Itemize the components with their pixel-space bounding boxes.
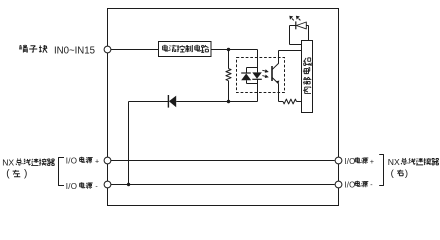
svg-text:): ) [24,169,27,180]
phototransistor Q1 base bar [271,66,273,81]
bracket right connector [379,155,383,186]
phototransistor emitter [272,77,278,83]
internal circuit block [302,41,313,113]
LED right (down) in optocoupler [252,72,261,78]
svg-text:I/O: I/O [66,182,78,191]
resistor R output (horizontal) [283,99,297,104]
LED pair connector top [247,67,258,69]
LED indicator light arrows [292,19,294,21]
I/O power - wire [111,184,335,186]
label 端子块 (terminal block) [19,45,47,53]
LED indicator loop wires [308,26,310,41]
wire collector to internal circuit [279,50,302,52]
svg-text:-: - [95,183,98,190]
svg-text:-: - [370,182,373,189]
light arrows LED to phototransistor [262,69,265,72]
node junction at I/O- [127,183,130,186]
diode D1 on return wire [167,95,169,108]
main unit outline box [108,9,339,206]
terminal right I/O- circle [335,181,342,188]
svg-text:IN0~IN15: IN0~IN15 [54,45,96,56]
svg-text:(: ( [6,169,10,180]
terminal left I/O+ circle [104,157,111,164]
node junction resistor bottom [227,100,230,103]
wire return down to I/O- [128,102,130,185]
node junction resistor top [227,48,230,51]
terminal left I/O- circle [104,181,111,188]
wire emitter to resistor [279,101,284,103]
current control circuit block [159,42,212,57]
wire rail down (upper) [257,50,259,73]
wire emitter down [278,83,280,101]
LED indicator diode [295,21,297,29]
svg-text:(: ( [391,168,395,179]
optocoupler dashed box [237,58,285,93]
wire resistor to internal circuit [297,101,302,103]
svg-text:+: + [95,158,99,165]
svg-text:I/O: I/O [66,156,78,165]
wire diode to rail bottom [176,101,257,103]
svg-text:NX: NX [2,157,14,167]
svg-text:I/O: I/O [344,180,355,189]
label 电流控制电路 (current control circuit) [163,45,209,53]
terminal right I/O+ circle [335,157,342,164]
wire input IN to current control [111,49,158,51]
terminal IN circle [104,46,111,53]
wire current control to LED rail [211,49,258,51]
I/O power + wire [111,160,335,162]
wire rail down (lower) [257,79,259,101]
phototransistor collector [272,51,279,70]
LED pair left branch [246,68,248,74]
svg-text:I/O: I/O [344,157,355,166]
svg-text:NX: NX [388,157,400,167]
bottom return wire [129,101,169,103]
label 内部电路 (internal circuit, vertical) [303,58,311,94]
LED left (up) in optocoupler [241,72,251,74]
resistor R input (vertical) [228,50,230,69]
svg-text:+: + [370,159,374,166]
svg-text:): ) [405,168,408,179]
bracket left connector [59,158,65,186]
LED pair connector bottom [247,83,258,85]
